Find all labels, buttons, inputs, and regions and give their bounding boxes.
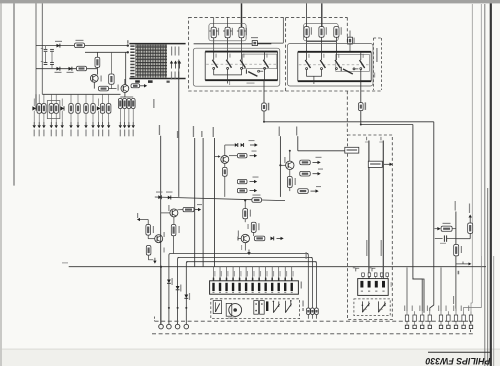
wire display left drop	[125, 52, 127, 84]
label 2752	[251, 37, 258, 38]
capacitor 2704 plates	[44, 49, 48, 51]
capacitor 2921	[435, 235, 456, 241]
diode 6431 pair	[235, 143, 244, 147]
wire block2 res tie	[307, 41, 337, 43]
wire bus line 3	[186, 261, 316, 263]
wire net P10	[160, 136, 162, 325]
wire cap column B	[51, 52, 53, 63]
wire 3921 down	[469, 233, 471, 238]
wire caps bottom tie	[51, 65, 53, 69]
wire pad9 from edge	[471, 303, 472, 311]
wire 7451 emitter	[289, 170, 291, 177]
resistor 3405	[171, 225, 176, 236]
resistor 3727	[84, 104, 88, 114]
wire net P11	[178, 60, 180, 197]
label 7901	[101, 76, 102, 82]
wire feed stub	[96, 52, 98, 57]
resistor 3758	[334, 27, 339, 38]
wire S1b bottom stub	[227, 69, 229, 83]
arrow feed right	[140, 84, 147, 87]
wire 7441 emitter	[244, 243, 246, 251]
label block1 bottom	[247, 83, 255, 84]
arrow C4 out	[250, 189, 258, 192]
capacitor 2756	[348, 37, 353, 44]
label S1b stub	[229, 81, 230, 85]
wire rail drops block1	[213, 44, 215, 52]
resistor 3725	[69, 104, 73, 114]
wire key bus upper	[264, 121, 434, 123]
pad 1501	[159, 324, 164, 329]
pad 1503	[175, 324, 180, 329]
resistor 3434	[237, 188, 247, 192]
wire contact link rail 2	[307, 70, 322, 77]
label net E2	[296, 127, 297, 136]
display bottom mark 2	[167, 81, 170, 83]
wire 7403 collector	[178, 209, 184, 211]
wire page margin vertical	[13, 3, 15, 185]
resistor trio frame 2	[304, 24, 339, 41]
wire 7403 base	[161, 212, 170, 214]
label bus left	[164, 248, 165, 253]
wire pad8 from edge	[464, 256, 482, 311]
arrow C1 out	[250, 143, 258, 146]
transistor 7901	[90, 74, 98, 82]
resistor 3731	[118, 99, 122, 109]
connector 1510 shell	[358, 279, 389, 296]
switch contact S2b	[320, 52, 325, 70]
wire key bus drop right A	[433, 122, 435, 268]
switch contact S2d	[360, 52, 365, 70]
arrow E3 out	[311, 189, 319, 192]
diode 6702	[60, 99, 64, 123]
wire right edge line 3	[484, 4, 486, 366]
resistor 3923	[454, 245, 459, 256]
node bus drop 4	[185, 307, 187, 309]
resistor 3953	[374, 273, 377, 279]
diode 6701	[32, 99, 36, 123]
label arrow E2	[318, 169, 323, 170]
switch contact S1b	[226, 52, 231, 70]
node display feed lower	[127, 51, 129, 53]
page fold line	[490, 3, 492, 366]
wire C tie	[229, 155, 237, 157]
label display net column	[153, 99, 154, 108]
resistor 3955	[386, 273, 389, 279]
label C3	[253, 177, 259, 178]
label motor wire	[306, 252, 307, 259]
label 6461	[172, 278, 173, 285]
pad 1504	[184, 324, 189, 329]
block 2 label pocket	[374, 38, 382, 90]
wire key bus drop right B	[412, 125, 414, 278]
wire rail B corner to row bus	[42, 93, 120, 95]
head bar	[266, 301, 268, 311]
capstan box pair	[254, 301, 264, 315]
switch contact S1e	[246, 69, 263, 76]
label C1	[249, 140, 255, 141]
pad 1520-5	[439, 325, 442, 328]
wire right net 1	[455, 212, 457, 267]
node bus drop 2	[168, 307, 170, 309]
wire 3711 to bus	[263, 111, 265, 122]
label 3405	[179, 226, 180, 233]
resistor 3951	[362, 273, 365, 279]
wire D2b	[253, 232, 255, 236]
ic 7459 box	[368, 161, 382, 167]
label 2756	[354, 38, 355, 44]
pad 1520-9	[469, 325, 472, 328]
wire net E1 vertical	[279, 136, 281, 197]
label 3711	[268, 103, 270, 111]
wire net P12	[194, 138, 196, 267]
ground arrow B	[153, 258, 156, 264]
resistor 3722	[42, 104, 46, 114]
wire 3752 top stub	[227, 17, 229, 27]
resistor 3756	[304, 27, 309, 38]
label display pins	[171, 47, 172, 56]
wire D2	[244, 219, 246, 222]
wire bus2 right drop	[311, 258, 313, 309]
wire key bus lower	[361, 124, 413, 126]
diode 6706	[69, 67, 72, 71]
arrow 3404 out	[195, 208, 202, 211]
wire cap 2756 stubs	[349, 31, 351, 38]
resistor 3404	[183, 207, 194, 211]
diode 6705	[57, 67, 60, 71]
wire 7431 emitter	[224, 163, 226, 167]
label 7902 mark	[118, 85, 119, 91]
label arrow C2	[252, 151, 257, 152]
resistor 3954	[380, 273, 383, 279]
leaf switch SK2	[273, 301, 280, 313]
servo leaf box	[354, 299, 390, 316]
display stub above	[127, 40, 129, 43]
label 6721	[156, 192, 163, 193]
wire 3409 top	[148, 240, 150, 246]
wire main ground rail	[69, 266, 486, 268]
node D1	[244, 199, 246, 201]
resistor 3409	[146, 246, 151, 256]
pad 1520-1	[405, 325, 408, 328]
label right net 1	[455, 201, 456, 211]
resistor 3706	[95, 57, 100, 67]
label 3408	[153, 226, 154, 233]
label 3453	[295, 178, 296, 185]
capacitor 2704 plus	[41, 47, 43, 50]
resistor 3753	[239, 27, 244, 37]
wire 3409 down corner	[149, 255, 154, 260]
motor M1	[226, 303, 241, 316]
connector 1510 pins	[360, 281, 385, 292]
wire jog to pad3	[413, 277, 422, 311]
diode 6463	[184, 295, 188, 325]
wire contact link rail	[214, 69, 242, 75]
wire P10 to pad	[160, 267, 162, 325]
capacitor 2706 plus	[41, 60, 43, 63]
deck block outline	[211, 299, 300, 319]
pad 1520-7	[454, 325, 457, 328]
display connector ladder	[130, 45, 134, 77]
arrow display sense 3	[178, 61, 181, 69]
wire mains drop to block1	[241, 3, 243, 27]
wire 3432 down	[224, 176, 226, 197]
diode 6921	[435, 227, 441, 230]
arrow net P14 tap	[215, 155, 221, 158]
wire resistor to transistor	[96, 67, 98, 74]
leaf switch SK1	[213, 301, 221, 314]
wire res3708 to elco	[109, 88, 117, 90]
wire 3405 down	[173, 236, 175, 254]
capacitor 2705 plates	[50, 49, 54, 51]
resistor 3721	[37, 104, 41, 114]
label servo net 2 top	[380, 137, 381, 141]
cable dashed upper	[155, 320, 468, 322]
bracket around 3723 3724	[47, 101, 60, 119]
resistor 3442	[251, 222, 256, 232]
resistor 3921	[468, 223, 473, 233]
label display nets	[171, 72, 172, 80]
wire S2d down	[360, 70, 362, 82]
diode 6703	[97, 99, 101, 123]
switch contact S2c	[335, 52, 340, 70]
transistor 7451	[286, 161, 294, 169]
display bottom mark	[135, 80, 140, 82]
pad 1520-6	[447, 325, 450, 328]
label 6463	[189, 293, 190, 300]
wire cap column A	[45, 52, 47, 63]
resistor 3729	[100, 104, 104, 114]
resistor 3752	[225, 27, 230, 37]
wire 7902 emitter tie	[120, 96, 133, 98]
wire 7404 base	[147, 235, 149, 239]
label servo mid 1	[366, 240, 367, 256]
switch unit 2 outer frame	[287, 44, 373, 87]
resistor 3728	[91, 104, 95, 114]
wire bus line 1	[171, 253, 309, 255]
wire 7403 emitter	[173, 217, 175, 225]
page fold shadow lower	[493, 256, 495, 366]
label 7441	[238, 231, 239, 237]
wire second feed to display	[85, 51, 128, 53]
label servo net 1 top	[366, 137, 367, 141]
arrow C3 out	[250, 180, 258, 183]
resistor 3451	[300, 160, 311, 165]
label 6705	[55, 72, 62, 73]
node E base	[279, 164, 281, 166]
label 7403	[168, 205, 169, 211]
arrow right tap	[456, 262, 472, 266]
cable dashed right riser	[470, 321, 472, 334]
transistor 7404	[155, 235, 163, 243]
wire jog	[413, 277, 424, 312]
label cluster B feed	[137, 213, 138, 218]
resistor 3724	[54, 104, 58, 114]
keyboard block 2 outline	[286, 17, 382, 135]
servo plus mark 1	[353, 267, 356, 268]
switch unit 1 mid dashed	[206, 63, 276, 65]
label 3404 out	[197, 204, 202, 205]
resistor 3757	[319, 27, 324, 38]
wire servo hook 1	[356, 268, 359, 271]
wire 7902 emitter	[124, 92, 126, 97]
switch unit 1 frame	[205, 52, 277, 81]
keyboard block 1 outline	[189, 17, 286, 91]
ic 7358 box	[345, 147, 359, 153]
diode 6441	[271, 236, 274, 240]
capacitor 2709 electrolytic	[109, 74, 114, 84]
wire 7451 collector	[289, 151, 291, 161]
label right tap below	[458, 271, 460, 275]
svg-text:PHILIPS FW330: PHILIPS FW330	[425, 356, 490, 366]
wire block1 output drop	[263, 80, 265, 103]
diode 6721	[158, 195, 161, 199]
wire supply rail A from top	[35, 3, 37, 103]
label E1 arrow	[316, 157, 322, 158]
wire 7902 base tie	[121, 84, 126, 88]
leaf switch SK5	[378, 301, 385, 312]
resistor 3708	[99, 86, 109, 91]
resistor 3760	[359, 103, 364, 111]
label ground rail end	[62, 262, 68, 263]
wire bus2 drop	[178, 258, 180, 287]
resistor 3704	[75, 43, 85, 48]
wire servo hook 2	[372, 268, 375, 271]
arrow right net 2	[469, 215, 472, 222]
resistor 3433	[237, 179, 247, 183]
wire S2b bottom stub	[313, 76, 315, 84]
diode 6462	[176, 286, 180, 324]
wire bus1 drop	[169, 254, 171, 280]
wire C vertical	[225, 144, 235, 146]
wire bus1 right drop	[307, 254, 309, 309]
wire elco bottom	[110, 84, 112, 88]
node control rail P10	[160, 196, 162, 198]
resistor 3402	[252, 198, 262, 202]
wire servo net 2	[382, 141, 384, 279]
transistor 7431	[221, 155, 229, 163]
node key bus A	[263, 121, 265, 123]
wire 3922 to net	[452, 228, 456, 230]
label 3402	[253, 195, 261, 196]
servo plus mark 2	[369, 267, 372, 268]
wire right edge line 2	[480, 4, 482, 256]
label M1	[228, 318, 236, 319]
label 3441	[250, 210, 251, 217]
label 3442	[258, 223, 259, 230]
resistor 3751	[211, 27, 216, 37]
wire bus line 2	[178, 257, 313, 259]
label 2921	[440, 243, 446, 244]
wire 3756 top stub	[306, 3, 308, 26]
label 3442 side	[248, 224, 249, 229]
deck dashed riser	[154, 317, 156, 322]
pad 1520-8	[462, 325, 465, 328]
wire row bus drop A	[35, 94, 37, 107]
resistor 3952	[368, 273, 371, 279]
label servo mid 2	[381, 240, 382, 256]
switch contact S1c	[240, 52, 245, 70]
label net E1	[279, 127, 280, 137]
capacitor 2706 plates	[44, 63, 48, 65]
wire 3760 down	[360, 111, 362, 125]
node display feed upper	[127, 44, 129, 46]
resistor 3443	[254, 236, 265, 241]
label 6709	[55, 41, 62, 42]
diode 6722	[168, 196, 171, 200]
wire mains drop to block2	[321, 3, 323, 26]
arrow C2 out	[250, 154, 258, 157]
pad 1520-4	[428, 325, 431, 328]
arrow display sense 1	[170, 61, 173, 69]
switch contact S1d	[263, 52, 268, 70]
wire 3453 down	[289, 188, 291, 192]
switch unit 2 inner frame	[336, 54, 370, 71]
wire D1	[244, 200, 246, 208]
servo block outline	[348, 135, 393, 320]
resistor 3709	[131, 84, 140, 88]
connector 1500 stubs and labels	[214, 267, 294, 281]
label right net low	[453, 296, 454, 304]
wire 7902 collector	[124, 79, 126, 85]
label 6722	[166, 192, 173, 193]
connector 1500 pin numbers	[213, 292, 293, 293]
node key bus B	[360, 124, 362, 126]
resistor 3711	[262, 103, 267, 111]
cable dashed lower	[152, 333, 474, 335]
label connector 1500	[301, 282, 302, 289]
node tuner rail tap	[289, 150, 291, 152]
wire net P14	[214, 138, 216, 267]
arrow D out	[277, 237, 284, 240]
wire block1 rail	[194, 43, 272, 45]
wire cap to corner	[257, 42, 283, 44]
pad 1502	[167, 324, 172, 329]
label 3704	[76, 40, 84, 41]
label D emitter	[241, 245, 242, 250]
wire right net down	[455, 267, 457, 309]
diode 6709	[57, 44, 60, 48]
arrow feed B	[137, 218, 148, 221]
node bus drop 3	[177, 307, 179, 309]
pad 1520-3	[421, 325, 424, 328]
wire net E2 vertical	[297, 136, 299, 151]
arrow 7459 out	[384, 163, 393, 166]
switch unit 1 inner frame	[243, 54, 277, 69]
arrow E2 out	[313, 172, 321, 175]
resistor 3702	[77, 66, 87, 71]
resistor 3922	[441, 226, 452, 231]
wire pad4 from key bus	[430, 267, 434, 311]
wire pad1 up	[406, 267, 408, 311]
switch contact S2e	[341, 67, 358, 74]
wire block1 top drop	[282, 17, 284, 43]
label block2 corner	[374, 73, 375, 78]
label 7451	[284, 157, 285, 163]
wire pad7 up	[455, 309, 457, 312]
wire control rail	[155, 197, 285, 201]
transistor 7441	[241, 234, 249, 242]
resistor 3726	[76, 104, 80, 114]
ground arrow D	[247, 250, 250, 256]
connector 1500 shell	[210, 281, 299, 294]
connector 1500 pins	[212, 283, 293, 291]
wire 3751 top stub	[213, 17, 215, 27]
arrow E1 out	[313, 161, 321, 164]
label deck right	[302, 301, 303, 307]
resistor 3453	[287, 177, 292, 188]
wire elco top	[110, 52, 112, 74]
switch unit 1 outer frame	[193, 48, 279, 86]
